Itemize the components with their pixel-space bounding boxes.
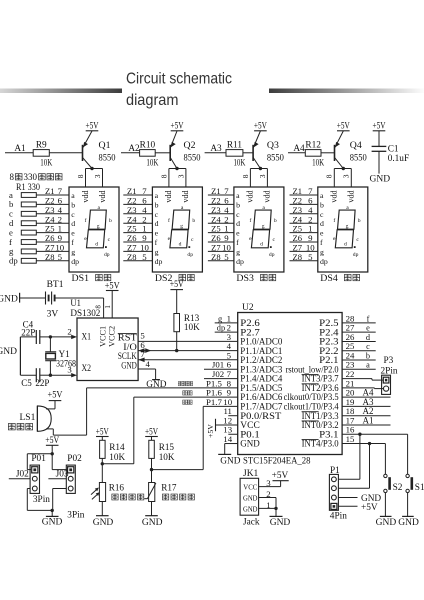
decorative right rule [269, 89, 424, 94]
svg-text:b: b [71, 200, 75, 209]
wire GND to BT1 [20, 297, 46, 299]
net J01 wire at U2 pin 6 [204, 368, 238, 370]
svg-text:g: g [262, 224, 265, 230]
wire DS2 pin 8 stub [168, 169, 170, 188]
net Z3 wire into DS3 [208, 213, 234, 215]
svg-text:diagram: diagram [126, 92, 179, 109]
svg-text:DS4: DS4 [320, 274, 338, 284]
svg-text:b: b [274, 218, 277, 224]
svg-text:P02: P02 [67, 454, 82, 464]
wire rail to P01 pin1 [27, 453, 52, 455]
net Z3 wire into DS1 [36, 213, 69, 215]
svg-text:e: e [236, 229, 240, 238]
ground U1 pin 4 [138, 369, 167, 390]
net label buzzer (Chinese) [178, 381, 183, 385]
svg-text:15: 15 [346, 434, 355, 444]
svg-text:3V: 3V [47, 309, 59, 319]
net Z2 wire into DS1 [36, 203, 69, 205]
svg-text:22P: 22P [35, 378, 49, 388]
svg-text:c: c [356, 237, 359, 243]
wire U2 pin 18 net A2 [342, 415, 390, 417]
+5V rotated at VCC [206, 419, 238, 438]
svg-text:+5V: +5V [145, 426, 158, 436]
svg-text:b: b [192, 218, 195, 224]
+5V at JK1 [272, 471, 289, 487]
ground P01 P02 [42, 510, 63, 527]
+5V supply of Q4 [337, 121, 350, 131]
svg-text:f: f [85, 217, 87, 224]
wire P1 pin4 +5V [338, 505, 357, 507]
svg-text:GND: GND [243, 504, 258, 513]
wire U2 P1.7 to R15/R17 divider [203, 405, 238, 407]
net label temperature (Chinese) [183, 400, 188, 404]
svg-text:R12: R12 [305, 140, 321, 150]
transistor Q4 8550 PNP [335, 131, 368, 169]
svg-text:d: d [155, 219, 159, 228]
svg-text:8: 8 [159, 174, 168, 178]
svg-text:Circuit schematic: Circuit schematic [126, 71, 232, 88]
svg-text:b: b [155, 200, 159, 209]
svg-text:Y1: Y1 [59, 349, 71, 359]
svg-text:g: g [218, 314, 222, 323]
+5V supply of Q1 [86, 121, 99, 131]
resistor R1.8 330 segment dp [9, 256, 36, 266]
svg-text:a: a [366, 361, 370, 370]
connector P02 3Pin [66, 454, 82, 493]
junction collector Q1 [90, 167, 93, 170]
wire P1 pin2 to U2 pin15 [338, 487, 369, 489]
net Z7 wire into DS4 [290, 250, 318, 252]
+5V rail of P01 P02 [45, 435, 59, 470]
svg-text:GND: GND [370, 175, 391, 185]
svg-text:e: e [320, 229, 324, 238]
decorative left rule [0, 89, 122, 94]
wire R11 to Q3 base [243, 152, 253, 154]
junction pin15 to P1 pin2 [368, 442, 371, 445]
wire P02 pin3 to ground [53, 488, 67, 490]
wire A1 input [5, 152, 33, 154]
resistor R12 10K [305, 140, 324, 168]
svg-text:dp: dp [236, 257, 244, 266]
wire BT1 to U1 VCC1 [55, 297, 104, 299]
svg-text:d: d [179, 242, 182, 248]
svg-text:+5V: +5V [45, 435, 59, 445]
svg-text:dp: dp [9, 256, 18, 266]
svg-text:3: 3 [176, 174, 185, 178]
svg-text:5: 5 [224, 252, 229, 262]
wire X2 to crystal node [50, 374, 72, 376]
svg-text:8: 8 [241, 174, 250, 178]
svg-text:d: d [260, 242, 263, 248]
svg-text:Z8: Z8 [45, 252, 55, 262]
svg-text:GND: GND [240, 439, 260, 449]
svg-text:d: d [320, 219, 324, 228]
designator DS3 [236, 274, 275, 284]
svg-text:c: c [71, 210, 75, 219]
svg-text:dp: dp [269, 252, 275, 258]
resistor R1.4 330 segment d [9, 218, 36, 228]
ground R17 [142, 502, 163, 528]
ground S1 [398, 516, 419, 528]
svg-text:vdd: vdd [181, 190, 190, 202]
svg-text:8: 8 [95, 305, 103, 309]
svg-text:10K: 10K [146, 159, 158, 169]
net Z1 wire into DS3 [208, 194, 234, 196]
wire U2 pin 22 to P3 pin 1 [342, 378, 372, 380]
svg-text:+5V: +5V [86, 121, 99, 131]
wire U1 SCLK to U2 P1.2 [138, 359, 238, 361]
svg-text:a: a [236, 191, 240, 200]
svg-text:8550: 8550 [350, 152, 367, 162]
title 'Circuit schematic diagram' [126, 71, 232, 110]
svg-text:dp: dp [217, 324, 225, 333]
svg-text:dp: dp [320, 257, 328, 266]
svg-text:f: f [71, 238, 74, 247]
switch S1 pushbutton [406, 434, 424, 516]
wire U2 pin 23 net a [342, 368, 376, 370]
svg-text:10K: 10K [159, 452, 175, 462]
junction collector Q4 [342, 167, 345, 170]
wire rail to P02 pin1 [52, 469, 67, 471]
svg-text:7: 7 [140, 349, 145, 359]
svg-text:GND: GND [42, 518, 63, 528]
net g wire at U2 pin 1 [215, 322, 238, 324]
connector P1 4Pin [329, 466, 347, 521]
net Z2 wire into DS3 [208, 203, 234, 205]
wire stub U2 pin 13 [228, 433, 237, 435]
svg-text:dp: dp [71, 257, 79, 266]
svg-text:3: 3 [266, 478, 271, 488]
designator DS4 [320, 274, 359, 284]
junction collector Q2 [175, 167, 178, 170]
svg-text:8550: 8550 [267, 152, 284, 162]
wire JK1 pin 2 [259, 497, 276, 499]
svg-text:J03: J03 [56, 469, 69, 479]
svg-text:vdd: vdd [98, 190, 107, 202]
wire U2 pin 26 net d [342, 340, 376, 342]
svg-text:c: c [108, 237, 111, 243]
resistor R1.7 330 segment g [9, 246, 36, 256]
resistor R13 10K [170, 279, 200, 350]
net Z6 wire into DS1 [36, 241, 69, 243]
svg-text:5: 5 [58, 252, 63, 262]
net J02 wire at U2 pin 7 [204, 378, 238, 380]
net Z5 wire into DS1 [36, 232, 69, 234]
thermistor R17 [144, 483, 177, 502]
wire U2 pin 21 to P3 pin 2 [342, 387, 374, 389]
wire DS3 pin 3 stub [266, 169, 268, 188]
wire A2 input [121, 152, 140, 154]
svg-text:+5V: +5V [105, 280, 120, 290]
wire P1 pin3 GND [338, 497, 357, 499]
svg-text:JK1: JK1 [243, 469, 259, 479]
svg-text:c: c [236, 210, 240, 219]
net Z5 wire into DS2 [123, 232, 152, 234]
svg-text:+5V: +5V [96, 426, 109, 436]
svg-text:vdd: vdd [164, 190, 173, 202]
svg-text:+5V: +5V [254, 121, 267, 131]
svg-text:vdd: vdd [330, 190, 339, 202]
svg-text:vdd: vdd [81, 190, 90, 202]
switch S2 pushbutton [384, 444, 403, 517]
battery BT1 3V [46, 280, 64, 319]
svg-text:R15: R15 [159, 442, 175, 452]
transistor Q3 8550 PNP [253, 131, 284, 169]
svg-text:f: f [236, 238, 239, 247]
junction divider to P1.7 [150, 468, 153, 471]
svg-text:8: 8 [325, 174, 334, 178]
junction +5V rail split [51, 452, 54, 455]
wire P1 pin1 to U2 pin16 [338, 478, 360, 480]
svg-text:f: f [250, 217, 252, 224]
svg-text:Q1: Q1 [99, 140, 111, 151]
svg-text:10K: 10K [109, 452, 125, 462]
svg-text:2: 2 [266, 489, 270, 499]
wire U1 RST to U2 P1.0 [138, 340, 238, 342]
resistor R11 10K [226, 140, 246, 168]
net Z7 wire into DS1 [36, 250, 69, 252]
svg-text:R1 330: R1 330 [16, 182, 40, 192]
svg-text:INT4/P3.0: INT4/P3.0 [302, 439, 339, 449]
svg-text:14: 14 [223, 434, 232, 444]
ground crystal [0, 337, 20, 375]
svg-text:10K: 10K [40, 159, 52, 169]
svg-text:10K: 10K [184, 322, 200, 332]
+5V supply of U1 [105, 280, 120, 318]
capacitor C5 22P [20, 368, 50, 388]
ground JK1 [270, 508, 291, 528]
junction JK1 pins 1-2 [274, 507, 277, 510]
svg-text:A1: A1 [363, 415, 374, 425]
svg-text:+5V: +5V [48, 389, 63, 399]
wire X1 to crystal node [50, 336, 72, 338]
wire LS1 to U2 P1.5 [46, 428, 53, 430]
svg-text:GND: GND [121, 360, 137, 370]
wire DS1 pin 3 stub [102, 169, 104, 188]
ground at pin 14 [218, 444, 241, 467]
svg-text:LS1: LS1 [20, 413, 36, 423]
net Z6 wire into DS4 [290, 241, 318, 243]
svg-text:GND: GND [93, 518, 114, 528]
svg-text:DS3: DS3 [236, 274, 254, 284]
svg-text:2: 2 [67, 326, 71, 336]
svg-text:8: 8 [10, 172, 15, 182]
wire DS4 pin 3 stub [350, 169, 352, 188]
svg-text:e: e [366, 324, 370, 333]
svg-text:VCC: VCC [243, 483, 257, 492]
svg-text:d: d [366, 333, 371, 342]
svg-text:dp: dp [187, 252, 193, 258]
net Z3 wire into DS2 [123, 213, 152, 215]
arrow I/O bidirectional [138, 348, 144, 353]
svg-text:f: f [367, 314, 370, 323]
svg-text:R9: R9 [36, 140, 47, 150]
svg-text:VCC2: VCC2 [108, 326, 117, 347]
resistor R10 10K [140, 140, 159, 168]
connector P01 3Pin [30, 454, 46, 493]
wire stub U2 pin 11 [228, 415, 237, 417]
net Z4 wire into DS2 [123, 222, 152, 224]
svg-text:g: g [97, 224, 100, 230]
svg-text:f: f [168, 217, 170, 224]
wire JK1 pin 1 [259, 507, 276, 509]
svg-text:Q4: Q4 [350, 140, 362, 151]
svg-text:a: a [71, 191, 75, 200]
pin 2 arrow into X1 [71, 335, 77, 339]
label photoresistor (Chinese) [112, 494, 118, 500]
7-segment display DS3 (common anode) [234, 187, 284, 272]
pin 3 arrow into X2 [71, 373, 77, 377]
crystal Y1 32768 [45, 335, 76, 377]
ground BT1 [0, 293, 20, 305]
photoresistor R16 [91, 483, 124, 502]
ground S2 [376, 516, 397, 528]
net Z8 wire into DS2 [123, 260, 152, 262]
net Z5 wire into DS3 [208, 232, 234, 234]
wire DS2 pin 3 stub [185, 169, 187, 188]
wire R12 to Q4 base [321, 152, 335, 154]
svg-text:vdd: vdd [347, 190, 356, 202]
svg-text:1: 1 [266, 500, 270, 510]
svg-text:C1: C1 [388, 144, 399, 154]
svg-text:R17: R17 [161, 483, 177, 493]
net label light-ctl (Chinese) [183, 391, 188, 395]
svg-text:GND: GND [220, 457, 240, 467]
svg-text:e: e [155, 229, 159, 238]
label thermistor (Chinese) [162, 494, 168, 500]
net Z4 wire into DS1 [36, 222, 69, 224]
wire R14 to R16 [101, 458, 103, 482]
wire DS4 pin 8 stub [333, 169, 335, 188]
svg-text:10K: 10K [233, 159, 245, 169]
svg-text:5: 5 [142, 252, 147, 262]
wire JK1 pin 3 to +5V [259, 486, 281, 488]
svg-text:8550: 8550 [184, 152, 201, 162]
svg-text:a: a [155, 191, 159, 200]
wire U2 pin 25 net c [342, 350, 376, 352]
connector JK1 power jack [240, 469, 260, 527]
wire U2 pin 16 to switch S1 [342, 433, 408, 435]
svg-text:g: g [180, 224, 183, 230]
+5V supply of Q2 [171, 121, 184, 131]
net Z1 wire into DS2 [123, 194, 152, 196]
wire JK1 pin2 down to pin1 [275, 498, 277, 509]
wire collector bus DS3 [250, 168, 267, 170]
svg-text:b: b [109, 218, 112, 224]
svg-text:g: g [320, 247, 324, 256]
svg-text:3Pin: 3Pin [67, 511, 84, 521]
wire U1 I/O to U2 P1.1 [138, 350, 238, 352]
wire U2 pin 15 to switch S2 [342, 443, 385, 445]
resistor R14 10K [96, 426, 126, 462]
resistor R1.5 330 segment e [9, 227, 36, 237]
svg-text:1: 1 [104, 305, 112, 309]
svg-text:+5V: +5V [206, 424, 215, 438]
svg-text:d: d [71, 219, 75, 228]
svg-text:GND: GND [398, 518, 419, 528]
wire A4 input [288, 152, 305, 154]
wire R9 to Q1 base [49, 152, 82, 154]
wire DS3 pin 8 stub [249, 169, 251, 188]
resistor R1.2 330 segment b [9, 199, 36, 209]
capacitor C1 0.1uF [372, 121, 410, 174]
svg-text:3: 3 [93, 174, 102, 178]
svg-text:R16: R16 [109, 483, 125, 493]
svg-text:b: b [358, 218, 361, 224]
svg-text:d: d [95, 242, 98, 248]
net Z2 wire into DS4 [290, 203, 318, 205]
wire U2 pin 20 net A4 [342, 396, 390, 398]
svg-text:Q3: Q3 [267, 140, 279, 151]
ground R16 [93, 502, 114, 528]
svg-text:4Pin: 4Pin [330, 511, 347, 521]
wire R10 to Q2 base [155, 152, 170, 154]
junction ground node P01 P02 [51, 509, 54, 512]
resistor R15 10K [145, 426, 175, 462]
svg-text:Z8: Z8 [211, 252, 221, 262]
+5V supply of Q3 [254, 121, 267, 131]
svg-text:BT1: BT1 [47, 280, 64, 290]
wire collector bus DS4 [334, 168, 351, 170]
svg-text:d: d [344, 242, 347, 248]
capacitor C4 22P [20, 320, 50, 344]
svg-text:0.1uF: 0.1uF [388, 154, 409, 164]
wire DS1 pin 8 stub [85, 169, 87, 188]
svg-text:+5V: +5V [170, 279, 184, 289]
resistor network caption [10, 172, 63, 192]
svg-text:b: b [236, 200, 240, 209]
svg-text:GND: GND [146, 380, 166, 390]
svg-text:f: f [155, 238, 158, 247]
svg-text:GND: GND [270, 518, 291, 528]
net Z5 wire into DS4 [290, 232, 318, 234]
net Z8 wire into DS3 [208, 260, 234, 262]
svg-text:STC15F204EA_28: STC15F204EA_28 [243, 457, 311, 467]
net Z8 wire into DS4 [290, 260, 318, 262]
net Z4 wire into DS4 [290, 222, 318, 224]
net Z8 wire into DS1 [36, 260, 69, 262]
svg-text:GND: GND [0, 347, 17, 357]
wire A3 input [205, 152, 226, 154]
junction pin16 to P1 pin1 [358, 433, 361, 436]
svg-text:C5: C5 [21, 378, 32, 388]
net Z2 wire into DS2 [123, 203, 152, 205]
svg-text:330: 330 [24, 172, 38, 182]
wire P01 pin3 to ground [27, 488, 30, 490]
net Z4 wire into DS3 [208, 222, 234, 224]
svg-text:c: c [155, 210, 159, 219]
net Z6 wire into DS3 [208, 241, 234, 243]
svg-text:4: 4 [145, 359, 150, 369]
svg-text:R11: R11 [227, 140, 243, 150]
buzzer LS1 speaker [20, 406, 56, 431]
svg-text:g: g [346, 224, 349, 230]
wire collector bus DS2 [169, 168, 186, 170]
svg-text:8550: 8550 [99, 152, 116, 162]
resistor R1.1 330 segment a [9, 190, 36, 200]
svg-text:DS1: DS1 [72, 274, 90, 284]
wire collector bus DS1 [86, 168, 103, 170]
connector P3 2Pin [381, 356, 398, 394]
svg-text:P3: P3 [384, 356, 394, 366]
wire U2 P1.5 to buzzer [87, 387, 238, 389]
wire U2 pin 28 net f [342, 322, 376, 324]
svg-text:X1: X1 [82, 332, 92, 342]
svg-text:32768: 32768 [56, 359, 76, 369]
transistor Q2 8550 PNP [170, 131, 201, 169]
svg-text:vdd: vdd [246, 190, 255, 202]
svg-text:+5V: +5V [171, 121, 184, 131]
